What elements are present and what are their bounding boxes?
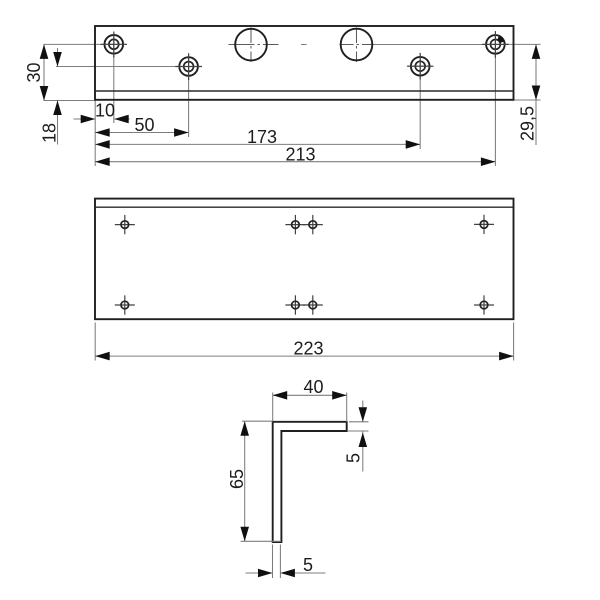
- hole M4: [480, 221, 488, 229]
- dim line 65: [244, 421, 246, 541]
- hole H4 dark crosshair: [482, 43, 509, 45]
- hole M3 crosshair: [303, 224, 323, 226]
- hole M7 crosshair: [303, 304, 323, 306]
- extension line plate bottom left: [44, 100, 96, 102]
- svg-text:213: 213: [285, 145, 315, 165]
- extension line datum left edge vertical: [94, 100, 96, 166]
- dim line 5 bottom left tail: [246, 572, 273, 574]
- large circle C2: [341, 29, 373, 61]
- extension line 65 bottom: [241, 540, 281, 542]
- hole M8 crosshair: [474, 304, 494, 306]
- extension line 40 left: [272, 393, 274, 422]
- extension line 40 right: [346, 393, 348, 422]
- hole M6 crosshair: [285, 304, 305, 306]
- hole M5: [121, 301, 129, 309]
- hole M5 crosshair: [115, 304, 135, 306]
- arrow 40 left: [273, 391, 288, 400]
- edge line middle view: [95, 206, 514, 208]
- svg-text:65: 65: [227, 469, 247, 489]
- arrow 10 right: [114, 115, 129, 124]
- dim line 10 right tail: [114, 118, 129, 120]
- hole M2: [292, 221, 300, 229]
- extension line hole4 right horizontal: [507, 43, 541, 45]
- svg-text:223: 223: [293, 339, 323, 359]
- arrow 18 bottom: [53, 101, 62, 116]
- arrow 5 right bottom: [359, 433, 368, 448]
- dim line 30: [43, 44, 45, 100]
- arrow 29,5 top: [532, 44, 541, 59]
- arrow 30 bottom: [40, 86, 49, 101]
- dim line 5 bottom right tail: [280, 572, 325, 574]
- svg-text:5: 5: [303, 555, 313, 575]
- dim line 223: [95, 355, 513, 357]
- extension line 5 right upper: [349, 421, 369, 423]
- dim line 18 upper tail: [57, 48, 59, 67]
- hole H3 dark crosshair: [407, 65, 434, 67]
- arrow 50 right: [174, 128, 189, 137]
- hole M1: [121, 221, 129, 229]
- arrow 5 bottom right: [280, 569, 295, 578]
- hole M7: [309, 301, 317, 309]
- hole M4 crosshair: [474, 223, 494, 225]
- svg-text:30: 30: [24, 62, 44, 82]
- arrow 18 top: [53, 52, 62, 67]
- svg-text:18: 18: [39, 123, 59, 143]
- hole M3: [309, 221, 317, 229]
- extension line 65 top: [242, 420, 273, 422]
- svg-text:5: 5: [344, 453, 364, 463]
- arrow 223 left: [95, 352, 110, 361]
- arrow 30 top: [40, 44, 49, 59]
- dim line 18 lower tail: [57, 101, 59, 145]
- dim line 213: [95, 161, 495, 163]
- hole H3 outer: [411, 57, 430, 76]
- arrow 5 bottom left: [258, 569, 273, 578]
- centerline hole3 horizontal: [408, 65, 433, 67]
- hole M1 crosshair: [115, 224, 135, 226]
- fold line top view: [95, 90, 514, 92]
- hole H4 outer: [486, 35, 505, 54]
- dim line 10 left tail: [74, 118, 96, 120]
- dim line 29,5: [535, 44, 537, 145]
- extension line 223 left: [94, 323, 96, 361]
- L bracket outline: [273, 422, 347, 542]
- dim line 5 right upper tail: [362, 401, 364, 422]
- hole H1 inner: [109, 39, 119, 49]
- hole H4 wedge mark: [498, 38, 502, 42]
- centerline circle C2 vertical: [356, 28, 358, 63]
- arrow 65 bottom: [240, 527, 249, 542]
- plate outline top view: [95, 26, 514, 100]
- extension line hole4 vertical: [494, 34, 496, 167]
- extension line hole2 centerline horizontal: [56, 66, 200, 68]
- hole H2 dark crosshair: [175, 66, 202, 68]
- hole M6: [292, 301, 300, 309]
- extension line hole1 vertical: [113, 33, 115, 123]
- arrow 173 left: [95, 140, 110, 149]
- hole H2 outer: [179, 57, 198, 76]
- arrow 65 top: [240, 421, 249, 436]
- hole H1 dark crosshair: [101, 43, 128, 45]
- extension line hole2 vertical: [188, 56, 190, 138]
- arrow 10 left: [81, 115, 96, 124]
- hole H3 inner: [415, 61, 425, 71]
- dim line 40: [273, 394, 347, 396]
- svg-text:50: 50: [134, 115, 154, 135]
- hole M2 crosshair: [285, 224, 305, 226]
- arrow 29,5 bottom: [532, 86, 541, 101]
- centerline circle C1 vertical: [250, 28, 252, 63]
- hole H4 inner: [491, 40, 501, 50]
- extension line 5 right lower: [348, 430, 369, 432]
- extension line hole3 vertical: [419, 55, 421, 149]
- plate outline middle view: [95, 199, 514, 320]
- arrow 213 right: [481, 157, 496, 166]
- svg-text:40: 40: [303, 377, 323, 397]
- extension line 5 bottom left: [272, 545, 274, 579]
- hole M8: [480, 301, 488, 309]
- extension line plate bottom right horizontal: [514, 99, 541, 101]
- arrow 213 left: [95, 157, 110, 166]
- arrow 40 right: [332, 391, 347, 400]
- extension line 223 right: [513, 323, 515, 361]
- hole H1 outer: [105, 35, 124, 54]
- dim line 5 right lower tail: [362, 431, 364, 472]
- arrow 5 right top: [359, 407, 368, 422]
- svg-text:173: 173: [247, 127, 277, 147]
- dim line 173: [95, 143, 420, 145]
- extension line hole1 centerline horizontal: [44, 43, 127, 45]
- centerline hole row dash-dot horizontal: [229, 44, 279, 46]
- extension line 5 bottom right: [279, 545, 281, 579]
- svg-text:10: 10: [95, 101, 115, 121]
- large circle C1: [235, 29, 267, 61]
- hole H2 inner: [184, 62, 194, 72]
- svg-text:29,5: 29,5: [518, 106, 538, 141]
- arrow 173 right: [406, 140, 421, 149]
- dim line 50: [95, 132, 188, 134]
- arrow 223 right: [499, 352, 514, 361]
- arrow 50 left: [95, 128, 110, 137]
